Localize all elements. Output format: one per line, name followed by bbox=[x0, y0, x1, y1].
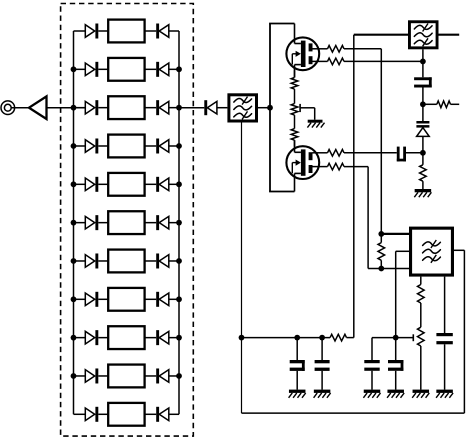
filter FL2 (top right) bbox=[409, 22, 437, 48]
wire Q1 source bbox=[294, 70, 296, 77]
filter FL1 (mid bandpass) bbox=[229, 95, 257, 121]
filter branch row 11: diode D11a, resonator X11, diode D11b bbox=[74, 403, 180, 426]
wire R9 stub end bbox=[451, 103, 460, 105]
junction dot right bus row 2 bbox=[176, 66, 182, 72]
wire FL1 to gate line bbox=[258, 107, 270, 109]
wire AGC segment bbox=[372, 337, 413, 339]
filter branch row 8: diode D8a, resonator X8, diode D8b bbox=[74, 288, 180, 311]
filter branch row 7: diode D7a, resonator X7, diode D7b bbox=[74, 250, 180, 273]
junction dot right bus row 3 bbox=[176, 105, 182, 111]
wire C3 to ground bbox=[444, 344, 446, 389]
wire input to amplifier bbox=[11, 107, 29, 109]
junction dot node K bbox=[378, 266, 384, 272]
capacitor C6 bbox=[364, 360, 379, 363]
junction dot left bus row 2 bbox=[71, 66, 77, 72]
junction dot node G bbox=[267, 105, 273, 111]
filter branch row 1: diode D1a, resonator X1, diode D1b bbox=[74, 20, 180, 43]
wire R8 leads bbox=[380, 234, 382, 243]
wire C2 to R6 bbox=[344, 152, 397, 154]
left bus wire bbox=[73, 31, 75, 414]
wire C6 to ground bbox=[371, 371, 373, 390]
capacitor C4 bbox=[290, 360, 305, 363]
junction dot right bus row 9 bbox=[176, 335, 182, 341]
wire cascode bottom bbox=[269, 191, 294, 193]
junction dot bus cap C5 bbox=[319, 335, 325, 341]
filter branch row 10: diode D10a, resonator X10, diode D10b bbox=[74, 365, 180, 388]
wire node J to filter FL3 bbox=[381, 233, 409, 235]
junction dot bus cap C4 bbox=[294, 335, 300, 341]
junction dot right bus row 5 bbox=[176, 181, 182, 187]
junction dot left bus row 5 bbox=[71, 181, 77, 187]
transistor Q1 (dual-gate MOSFET) bbox=[286, 24, 319, 78]
wire C4 hang bbox=[296, 338, 298, 360]
capacitor C7 bbox=[388, 360, 403, 363]
filter branch row 9: diode D9a, resonator X9, diode D9b bbox=[74, 326, 180, 349]
junction dot node C bbox=[420, 101, 426, 107]
wire C7 hang bbox=[395, 338, 397, 360]
junction dot left bus row 7 bbox=[71, 258, 77, 264]
ground (C3) bbox=[436, 390, 453, 393]
wire R5 to node B bbox=[344, 60, 423, 62]
wire R2 to R3 bbox=[294, 115, 296, 129]
resistor R6 bbox=[328, 150, 345, 157]
junction dot left bus row 3 bbox=[71, 105, 77, 111]
wire FL2 bottom stub bbox=[422, 49, 424, 61]
wire R1 to R2 bbox=[294, 89, 296, 104]
wire R7 to node K bbox=[344, 166, 368, 168]
junction dot node H bbox=[239, 335, 245, 341]
junction dot right bus row 7 bbox=[176, 258, 182, 264]
right bus wire bbox=[178, 31, 180, 414]
wire cascode top bbox=[269, 23, 294, 25]
filter FL3 (IF bandpass) bbox=[411, 228, 453, 275]
filter branch row 3: diode D3a, resonator X3, diode D3b bbox=[74, 96, 180, 119]
resistor R10 bbox=[420, 165, 427, 181]
ground (C4) bbox=[289, 390, 306, 393]
junction dot right bus row 10 bbox=[176, 373, 182, 379]
capacitor C5 bbox=[315, 360, 330, 363]
wire cascode left vertical bbox=[269, 24, 271, 192]
filter branch row 4: diode D4a, resonator X4, diode D4b bbox=[74, 135, 180, 158]
resistor R5 bbox=[328, 58, 345, 65]
wire varactor to node D bbox=[422, 136, 424, 152]
wire C5 to ground bbox=[321, 371, 323, 390]
junction dot left bus row 6 bbox=[71, 220, 77, 226]
wire node D to R10 bbox=[422, 153, 424, 165]
wire Q1 gate2 lead bbox=[313, 48, 328, 50]
resistor R3 bbox=[291, 129, 298, 141]
wire C7 to ground bbox=[395, 371, 397, 390]
wire FL3 bottom stub to C3 bbox=[444, 277, 446, 333]
filter branch row 6: diode D6a, resonator X6, diode D6b bbox=[74, 211, 180, 234]
ground (C6) bbox=[364, 390, 381, 393]
capacitor C3 bbox=[436, 333, 452, 336]
wire R13 to FL2 drop bbox=[347, 337, 354, 339]
wire FL2 output bbox=[439, 34, 460, 36]
wire node C to varactor bbox=[422, 104, 424, 121]
wire bottom return rail bbox=[242, 412, 465, 414]
wire Q2 gate2 lead bbox=[313, 152, 328, 154]
amplifier A1 (triangle) bbox=[29, 96, 47, 119]
wire node B to C1 bbox=[422, 61, 424, 78]
wire R4 to node J bbox=[344, 48, 381, 50]
junction dot left bus row 4 bbox=[71, 143, 77, 149]
junction dot node D bbox=[420, 150, 426, 156]
ground (R12) bbox=[413, 390, 430, 393]
junction dot node B bbox=[420, 59, 426, 65]
ground (C5) bbox=[314, 390, 331, 393]
resistor R11 bbox=[418, 285, 425, 304]
wire FL1 bottom to bottom bus bbox=[241, 123, 243, 414]
resistor R4 bbox=[328, 46, 345, 53]
wire node D to C2 bbox=[406, 152, 423, 154]
wire R3 to Q2 drain bbox=[294, 140, 296, 146]
junction dot right bus row 8 bbox=[176, 296, 182, 302]
junction dot left bus row 8 bbox=[71, 296, 77, 302]
capacitor C2 (series) bbox=[397, 147, 400, 162]
junction dot node J bbox=[378, 231, 384, 237]
resistor R7 bbox=[328, 163, 345, 170]
capacitor C1 bbox=[414, 77, 432, 80]
wire R10 to ground bbox=[422, 181, 424, 189]
ground (bias tap) bbox=[308, 120, 323, 123]
filter branch row 2: diode D2a, resonator X2, diode D2b bbox=[74, 58, 180, 81]
wire Q1 gate1 lead bbox=[313, 60, 328, 62]
wire node C to R9 bbox=[423, 103, 437, 105]
ground (R10) bbox=[415, 189, 432, 192]
wire FL3 bottom stub to R11 bbox=[420, 277, 422, 285]
wire FL3 mid-left port bbox=[396, 250, 409, 252]
resistor R13 bbox=[330, 334, 346, 341]
junction dot right bus row 4 bbox=[176, 143, 182, 149]
wire C4 to ground bbox=[296, 371, 298, 390]
wire diode to filter FL1 bbox=[217, 107, 228, 109]
wire C5 hang bbox=[321, 338, 323, 360]
resistor R12 (pot) bbox=[418, 327, 425, 346]
wire R11 to R12 bbox=[420, 303, 422, 327]
wire C1 to node C bbox=[422, 88, 424, 105]
resistor R9 bbox=[437, 101, 451, 108]
wire FL3 right port to output loop bbox=[454, 249, 464, 251]
junction dot left bus row 10 bbox=[71, 373, 77, 379]
wire bank output bbox=[179, 107, 204, 109]
junction dot left bus row 9 bbox=[71, 335, 77, 341]
varactor D14 bbox=[416, 121, 429, 124]
wire R12 to ground bbox=[420, 346, 422, 390]
junction dot right bus row 6 bbox=[176, 220, 182, 226]
wire FL2 input drop (node to bus) bbox=[353, 35, 355, 338]
wire bottom bus bbox=[242, 337, 331, 339]
input terminal J1 bbox=[1, 101, 15, 115]
wire Q2 gate1 lead bbox=[313, 166, 328, 168]
diode D13 bbox=[204, 100, 207, 115]
wire to filter FL2 (thick) bbox=[354, 34, 408, 36]
wire C6 hang bbox=[371, 338, 373, 360]
ground (C7) bbox=[387, 390, 404, 393]
filter bank enclosure (dashed) bbox=[61, 4, 194, 437]
junction dot node M bbox=[393, 335, 399, 341]
resistor R2 (with tap) bbox=[291, 104, 298, 116]
filter branch row 5: diode D5a, resonator X5, diode D5b bbox=[74, 173, 180, 196]
transistor Q2 (dual-gate MOSFET) bbox=[286, 140, 319, 191]
resistor R1 bbox=[291, 78, 298, 90]
wire R2 tap to ground bbox=[300, 107, 315, 109]
wire amplifier to filter bank bbox=[47, 107, 86, 109]
resistor R8 bbox=[378, 243, 385, 261]
